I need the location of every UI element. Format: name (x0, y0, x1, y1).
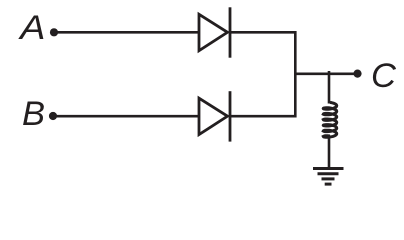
wire D1 to bus (230, 31, 297, 34)
svg-text:C: C (371, 57, 397, 95)
resistor R1 coil (323, 102, 336, 137)
svg-text:B: B (22, 95, 45, 133)
wire vertical bus (294, 31, 297, 118)
wire resistor bottom (328, 136, 331, 169)
node dot C (353, 70, 361, 78)
node dot B (49, 112, 57, 120)
diode D2 (199, 91, 230, 141)
diode D1 (199, 7, 230, 57)
svg-text:A: A (18, 7, 45, 46)
ground (313, 169, 344, 185)
wire A input (54, 31, 199, 34)
node dot A (50, 28, 58, 36)
wire D2 to bus (230, 115, 297, 118)
wire B input (53, 115, 199, 118)
wire resistor top (328, 71, 331, 104)
wire output (295, 73, 357, 76)
